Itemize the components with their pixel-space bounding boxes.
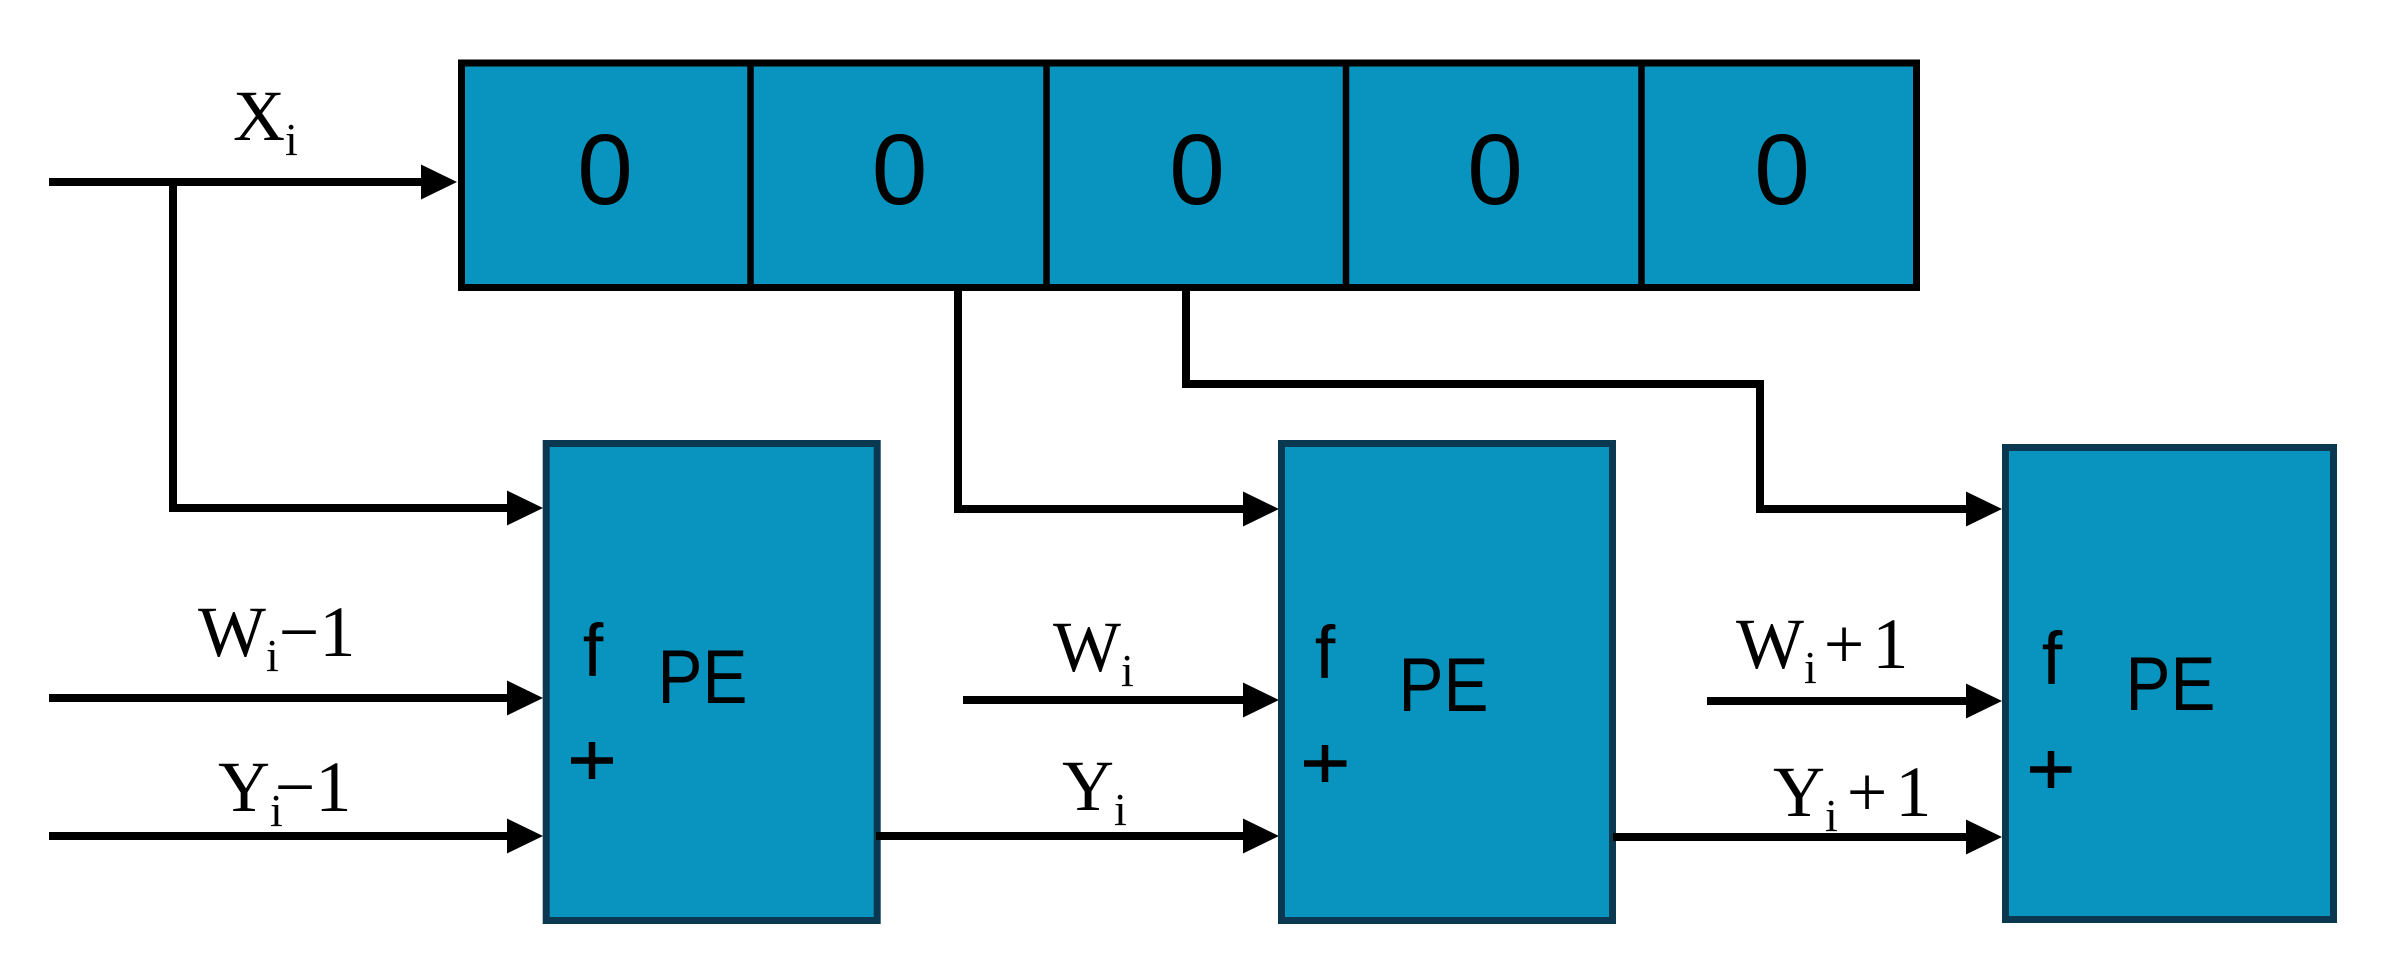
svg-text:Yi−1: Yi−1 bbox=[218, 747, 351, 836]
wire Wi+1 input bbox=[1707, 697, 1969, 705]
arrowhead Yi-1 into PE1 bbox=[507, 819, 543, 854]
wire Xi input horizontal bbox=[49, 178, 424, 186]
arrowhead register tap into PE3 bbox=[1966, 492, 2002, 527]
svg-text:0: 0 bbox=[577, 114, 633, 226]
arrowhead register tap into PE2 bbox=[1243, 492, 1279, 527]
svg-text:Wi+1: Wi+1 bbox=[1736, 604, 1908, 693]
wire from register cell2 down to PE2 bbox=[958, 288, 1245, 509]
arrowhead Yi+1 into PE3 bbox=[1966, 820, 2002, 855]
register cell divider 2 bbox=[1043, 63, 1050, 288]
svg-text:PE: PE bbox=[2126, 642, 2216, 727]
arrowhead Yi into PE2 bbox=[1243, 819, 1279, 854]
svg-text:f: f bbox=[1315, 611, 1336, 694]
register cell divider 1 bbox=[747, 63, 754, 288]
PE3 label plus horizontal stroke bbox=[2030, 766, 2072, 773]
arrowhead Xi into register bbox=[421, 165, 457, 200]
svg-text:f: f bbox=[583, 609, 604, 692]
wire from register cell3 down and across to PE3 bbox=[1186, 288, 1969, 509]
register bank (5-cell shift register) bbox=[462, 63, 1917, 288]
register cell divider 3 bbox=[1343, 63, 1350, 288]
PE2 label plus vertical stroke bbox=[1322, 745, 1329, 782]
svg-text:PE: PE bbox=[1399, 643, 1489, 728]
wire Yi from PE1 to PE2 bbox=[876, 832, 1246, 840]
svg-text:Wi: Wi bbox=[1053, 607, 1134, 696]
svg-text:0: 0 bbox=[1169, 114, 1225, 226]
wire Yi-1 input bbox=[49, 832, 510, 840]
wire Wi-1 input bbox=[49, 694, 510, 702]
wire Wi input bbox=[963, 696, 1246, 704]
processing element PE2 bbox=[1282, 444, 1613, 921]
arrowhead Wi+1 into PE3 bbox=[1966, 684, 2002, 719]
svg-text:0: 0 bbox=[1467, 114, 1523, 226]
wire Xi branch down to PE1 bbox=[173, 182, 510, 508]
processing element PE1 bbox=[546, 444, 877, 921]
svg-text:f: f bbox=[2042, 617, 2063, 700]
PE3 label plus vertical stroke bbox=[2048, 751, 2055, 788]
svg-text:PE: PE bbox=[658, 635, 748, 720]
PE1 label plus vertical stroke bbox=[589, 742, 596, 779]
processing element PE3 bbox=[2006, 448, 2334, 920]
svg-text:Yi+1: Yi+1 bbox=[1773, 752, 1931, 841]
svg-text:Wi−1: Wi−1 bbox=[198, 592, 355, 681]
svg-text:0: 0 bbox=[1754, 114, 1810, 226]
svg-text:0: 0 bbox=[872, 114, 928, 226]
PE1 label plus horizontal stroke bbox=[571, 757, 613, 764]
wire Yi+1 from PE2 to PE3 bbox=[1613, 833, 1969, 841]
arrowhead Wi-1 into PE1 bbox=[507, 681, 543, 716]
arrowhead Xi branch into PE1 bbox=[507, 491, 543, 526]
arrowhead Wi into PE2 bbox=[1243, 683, 1279, 718]
PE2 label plus horizontal stroke bbox=[1304, 760, 1347, 767]
register cell divider 4 bbox=[1638, 63, 1645, 288]
svg-text:Yi: Yi bbox=[1062, 746, 1127, 835]
svg-text:Xi: Xi bbox=[233, 76, 298, 165]
